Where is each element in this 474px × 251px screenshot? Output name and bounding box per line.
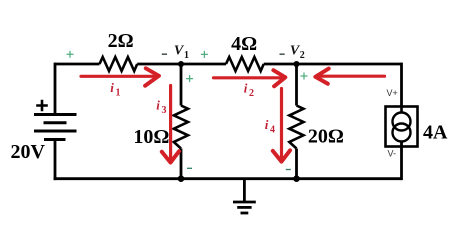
svg-text:2: 2 xyxy=(300,50,305,61)
svg-text:i: i xyxy=(244,81,248,96)
svg-text:2Ω: 2Ω xyxy=(108,30,134,52)
svg-text:1: 1 xyxy=(184,50,189,61)
battery VS plate short xyxy=(44,121,67,124)
svg-text:4: 4 xyxy=(270,125,275,136)
battery VS plate long bottom xyxy=(34,130,77,133)
svg-text:2: 2 xyxy=(249,88,254,99)
wire out of current source bottom xyxy=(400,142,403,181)
svg-text:1: 1 xyxy=(116,88,121,99)
svg-text:i: i xyxy=(265,117,269,132)
node V2 junction dot top xyxy=(293,61,299,67)
wire top rail V1 segment xyxy=(137,63,226,66)
wire V1 branch upper xyxy=(180,64,183,106)
current source IS circle lower xyxy=(393,124,411,142)
current arrow i1 xyxy=(81,68,159,85)
battery plus polarity xyxy=(36,100,48,111)
resistor 4Ω zigzag xyxy=(226,57,264,71)
svg-text:20Ω: 20Ω xyxy=(308,126,344,148)
resistor 20Ω zigzag xyxy=(289,106,303,149)
svg-text:i: i xyxy=(156,97,160,112)
junction dot bottom right xyxy=(293,175,300,182)
current arrow i2 xyxy=(214,70,286,86)
resistor 2Ω zigzag xyxy=(100,57,138,71)
svg-text:3: 3 xyxy=(162,105,167,116)
polarity plus 10Ω top (green) xyxy=(186,75,193,82)
svg-text:10Ω: 10Ω xyxy=(133,126,169,148)
svg-text:20V: 20V xyxy=(10,141,45,163)
wire top rail right segment xyxy=(264,63,402,66)
wire V2 branch lower xyxy=(295,149,298,180)
current arrow into V2 from source (left-pointing) xyxy=(315,69,384,84)
current source IS box xyxy=(386,107,418,147)
wire V2 branch upper xyxy=(295,64,298,106)
wire bottom rail xyxy=(54,177,402,180)
current arrow i3 xyxy=(162,86,179,163)
svg-text:V+: V+ xyxy=(387,88,398,98)
svg-text:4A: 4A xyxy=(423,121,448,143)
polarity plus 20Ω top (green) xyxy=(301,73,308,80)
polarity minus 4Ω right (dark) xyxy=(280,53,285,55)
battery VS plate short bottom xyxy=(44,138,66,141)
polarity plus 2Ω left (green) xyxy=(67,51,74,58)
wire into current source top xyxy=(400,107,403,113)
wire right rail upper xyxy=(400,63,403,107)
current source IS circle upper xyxy=(393,113,411,131)
svg-text:4Ω: 4Ω xyxy=(231,33,257,55)
wire left rail upper xyxy=(54,63,57,115)
junction dot bottom left xyxy=(178,175,185,182)
resistor 10Ω zigzag xyxy=(174,106,188,149)
polarity plus 4Ω left (green) xyxy=(201,51,208,58)
polarity minus 2Ω right (dark) xyxy=(162,53,167,55)
polarity minus 20Ω bottom (teal) xyxy=(286,169,291,171)
battery VS plate long top xyxy=(34,113,77,116)
svg-text:i: i xyxy=(110,80,114,95)
node V1 junction dot top xyxy=(178,61,184,67)
ground xyxy=(233,179,256,213)
wire top rail left segment xyxy=(55,63,100,66)
wire left rail lower xyxy=(54,140,57,181)
wire V1 branch lower xyxy=(180,149,183,180)
current arrow i4 xyxy=(273,89,290,162)
svg-text:V-: V- xyxy=(388,149,397,159)
polarity minus 10Ω bottom (teal) xyxy=(187,167,192,169)
